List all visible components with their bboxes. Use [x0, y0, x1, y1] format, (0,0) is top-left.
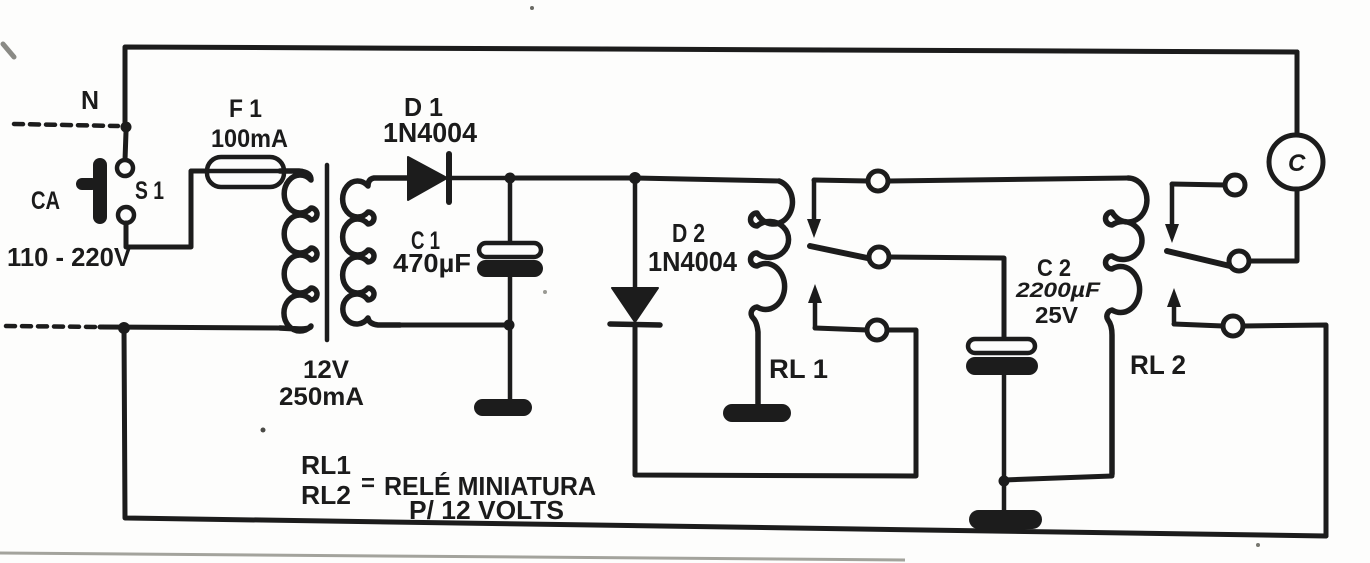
svg-text:C: C [1288, 150, 1306, 177]
wire RL1 common to C2 [889, 257, 1004, 340]
switch S1 terminal top [117, 160, 133, 176]
wire S1 to fuse [126, 171, 207, 247]
transformer T1 primary winding [280, 171, 317, 331]
load C lamp [1269, 135, 1323, 189]
node D1 output [505, 173, 516, 184]
capacitor C2 [966, 339, 1038, 510]
svg-text:P/ 12 VOLTS: P/ 12 VOLTS [409, 495, 564, 525]
contact RL2 NO [1223, 316, 1243, 336]
fuse F1 body [207, 157, 284, 187]
node N junction [121, 122, 132, 133]
diode D1 [374, 154, 512, 202]
wire dc rail to RL1 coil [635, 178, 779, 181]
wire phase input dashed [6, 326, 100, 327]
node phase junction [118, 322, 130, 334]
wire RL1 NC contact lead [814, 180, 868, 181]
wire RL2 NC lead [1172, 184, 1225, 185]
scan artifact speck 1 [261, 428, 266, 433]
svg-text:RL 1: RL 1 [769, 354, 828, 384]
wire RL1 NO lead [815, 328, 867, 330]
ground RL1 [723, 404, 791, 422]
contact RL1 NC [868, 171, 888, 191]
wire secondary bottom to C1 node [380, 323, 509, 328]
wire mains rail down to load C [1295, 52, 1300, 133]
scan artifact speck 3 [1256, 543, 1260, 547]
relay RL1 armature [810, 246, 872, 259]
transformer T1 core [325, 165, 330, 340]
wire D2 cathode to RL1 NO contact [635, 325, 916, 476]
capacitor C1 [477, 178, 543, 399]
wire RL2 common to load C [1249, 191, 1297, 261]
scan artifact speck 2 [530, 6, 534, 10]
svg-text:12V: 12V [303, 356, 349, 384]
scan artifact bottom edge line [0, 553, 905, 560]
wire RL2 NO lead [1174, 324, 1223, 326]
svg-text:C 2: C 2 [1037, 255, 1071, 282]
svg-text:110 - 220V: 110 - 220V [7, 242, 132, 272]
relay RL1 arrow down [807, 181, 821, 238]
svg-text:RL2: RL2 [301, 480, 351, 510]
svg-text:100mA: 100mA [211, 125, 288, 153]
svg-text:2200µF: 2200µF [1015, 279, 1102, 302]
svg-text:1N4004: 1N4004 [648, 246, 737, 277]
relay RL2 arrow up [1167, 288, 1181, 322]
svg-text:N: N [81, 85, 99, 115]
svg-text:1N4004: 1N4004 [383, 117, 477, 148]
diode D2 [610, 178, 660, 325]
wire RL1 NC to RL2 coil [888, 178, 1128, 181]
node D2 tap [629, 172, 641, 184]
contact RL2 common [1229, 251, 1249, 271]
svg-text:RL1: RL1 [301, 450, 351, 480]
svg-text:25V: 25V [1035, 302, 1079, 328]
svg-text:RL 2: RL 2 [1130, 350, 1186, 380]
relay RL2 armature [1167, 251, 1230, 266]
wire bottom mains rail [124, 328, 1326, 536]
svg-text:250mA: 250mA [279, 383, 364, 411]
wire N input dashed [14, 124, 118, 126]
wire C2 node to RL2 coil return [1004, 420, 1112, 480]
contact RL1 common [869, 247, 889, 267]
wire junction to switch [125, 132, 126, 160]
wire top mains rail [125, 47, 1297, 128]
ground C2 [969, 510, 1042, 529]
relay RL1 coil [751, 181, 793, 404]
wire phase to transformer primary [100, 327, 280, 328]
scan artifact left edge mark [3, 44, 14, 57]
svg-text:=: = [361, 470, 375, 497]
scan artifact speck 4 [543, 290, 547, 294]
transformer T1 secondary winding [343, 178, 408, 325]
ground C1 [474, 399, 532, 416]
svg-text:CA: CA [31, 187, 60, 215]
node C1 secondary return [504, 320, 515, 331]
svg-text:S 1: S 1 [135, 177, 164, 205]
switch S1 terminal bottom [118, 207, 134, 223]
fuse F1 wire through [191, 169, 302, 174]
node C2 bottom [999, 476, 1010, 487]
contact RL1 NO [867, 320, 887, 340]
svg-text:F 1: F 1 [229, 95, 262, 123]
plug CA symbol [76, 158, 107, 224]
contact RL2 NC [1225, 175, 1245, 195]
wire dc rail to D2 node [510, 176, 635, 181]
svg-text:470µF: 470µF [393, 248, 471, 278]
relay RL2 coil [1106, 178, 1147, 474]
relay RL2 arrow down [1165, 185, 1179, 243]
relay RL1 arrow up [808, 284, 822, 327]
svg-text:D 2: D 2 [672, 218, 705, 248]
wire RL2 NO to bottom rail [1243, 325, 1326, 536]
